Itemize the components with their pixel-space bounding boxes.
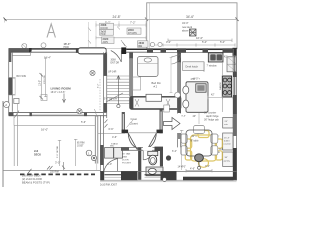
step wall below living room: [95, 112, 106, 164]
svg-text:buffet: buffet: [224, 140, 230, 143]
tick marks above deck line: [47, 166, 53, 170]
existing beam dashed: [20, 173, 95, 175]
callout box middle: [100, 29, 114, 36]
dimension line second row: [96, 23, 146, 26]
svg-text:DOOR: DOOR: [122, 160, 129, 162]
porch bar jamb: [76, 48, 78, 53]
svg-text:4'-2": 4'-2": [166, 40, 171, 44]
svg-text:4'-6": 4'-6": [112, 135, 117, 139]
callout box door 3068: [100, 23, 114, 30]
bathroom west wall: [138, 147, 141, 180]
svg-text:Desk hutch: Desk hutch: [186, 65, 199, 68]
wall block: [203, 48, 209, 52]
wall inner step: [12, 54, 30, 56]
coat closet walls: [122, 110, 163, 134]
pantry box: [223, 152, 233, 167]
island dim line right: [208, 96, 233, 99]
svg-text:BAY WIN: BAY WIN: [17, 75, 27, 78]
svg-text:40": 40": [193, 115, 197, 118]
living room vertical dim: [40, 58, 48, 100]
wall block: [177, 48, 186, 52]
dimension row above wall: [150, 43, 235, 46]
kitchen sink window sill: [208, 48, 223, 50]
front door swing: [111, 51, 122, 63]
bathroom door swing: [143, 150, 152, 159]
bed: [138, 57, 159, 77]
svg-text:DECK: DECK: [34, 154, 41, 157]
kitchen door swing: [171, 55, 180, 65]
wall break slash: [15, 111, 20, 118]
porch bar wall: [78, 48, 106, 54]
living room window sill: [31, 48, 78, 50]
wall block: [161, 48, 167, 52]
linen box: [164, 105, 170, 112]
bathroom east wall: [160, 150, 163, 166]
closet leader line: [127, 120, 134, 128]
circled marker 2: [91, 155, 96, 160]
svg-text:7' window: 7' window: [207, 66, 217, 68]
deck edge line: [3, 169, 100, 171]
column post: [166, 155, 171, 160]
toilet: [148, 151, 158, 165]
hall west wall: [103, 52, 107, 112]
wall block: [147, 48, 153, 52]
svg-text:36": 36": [225, 94, 229, 97]
svg-text:3068: 3068: [111, 60, 117, 62]
wall return connector: [13, 116, 15, 126]
opening arrow to dining: [164, 118, 181, 130]
bottom exterior wall: [100, 171, 237, 182]
svg-text:205 RIM: 205 RIM: [50, 171, 59, 173]
svg-text:15'-3": 15'-3": [224, 138, 230, 140]
svg-text:36": 36": [225, 157, 228, 159]
svg-text:7'-2": 7'-2": [130, 21, 136, 25]
svg-text:24": 24": [225, 121, 228, 123]
svg-text:6'-6": 6'-6": [109, 127, 114, 131]
base cabinet box: [223, 118, 233, 129]
interior wall kitchen-bed: [177, 52, 181, 147]
bedroom closet band: [130, 94, 181, 109]
svg-text:JOIST: JOIST: [77, 146, 84, 148]
chair stem mark: [198, 162, 200, 167]
svg-text:BEAM & POSTS (TYP): BEAM & POSTS (TYP): [22, 180, 50, 184]
deck edge verticals: [14, 113, 17, 166]
stair dashed line: [99, 79, 101, 111]
island: [186, 82, 208, 113]
right exterior wall: [233, 49, 237, 181]
kitchen sink under window: [208, 53, 223, 62]
wall block dark entry: [121, 47, 126, 54]
closet tag circle right: [175, 92, 181, 98]
fridge top right: [227, 57, 236, 72]
svg-text:W/D: W/D: [110, 145, 115, 147]
yellow notes: [172, 148, 223, 169]
frame tag circle: [4, 102, 10, 108]
svg-text:5'-0": 5'-0": [202, 40, 207, 44]
bedroom door leaf: [133, 77, 141, 90]
svg-text:HDR: HDR: [101, 34, 106, 36]
island stools: [183, 86, 189, 108]
setback dim line: [58, 140, 61, 166]
corner notch: [14, 99, 19, 104]
bedroom dim line: [170, 57, 173, 93]
svg-text:14'-0": 14'-0": [178, 166, 184, 169]
desk hutch: [183, 62, 204, 71]
svg-text:34'-0": 34'-0": [182, 21, 189, 25]
bathroom north wall: [121, 147, 163, 151]
svg-text:42": 42": [211, 94, 215, 97]
callout box right stack: [127, 28, 148, 48]
dark chair: [195, 154, 204, 162]
svg-text:5'-0" clg over: 5'-0" clg over: [104, 98, 117, 101]
leader slash: [28, 169, 32, 174]
svg-text:5'-6": 5'-6": [81, 121, 86, 124]
window tag circles: [22, 42, 162, 48]
yellow dining set: [185, 131, 222, 168]
dimension line third row: [96, 36, 146, 39]
laundry note block: [122, 153, 132, 165]
hall door to deck: [104, 159, 118, 172]
svg-text:6'-0": 6'-0": [172, 150, 177, 153]
deck rectangle top-right: [147, 3, 237, 49]
lower line below living room: [14, 124, 95, 126]
svg-text:2x10 RIM JOIST: 2x10 RIM JOIST: [100, 185, 118, 187]
front door gap: [107, 48, 122, 53]
dim end box: [41, 95, 47, 101]
svg-text:counter: counter: [224, 143, 232, 146]
svg-text:Bed Rm: Bed Rm: [152, 81, 161, 85]
left exterior wall: [8, 49, 15, 116]
stair break line: [106, 93, 123, 102]
svg-text:1/2 HIGH: 1/2 HIGH: [44, 74, 46, 84]
wall NW segment outline: [9, 48, 32, 50]
wall block: [223, 48, 233, 52]
range right wall: [222, 76, 231, 97]
svg-text:34'-6": 34'-6": [186, 15, 194, 19]
svg-text:AWN: AWN: [103, 41, 109, 44]
west wall lower portion: [100, 115, 104, 172]
circled marker 1: [86, 150, 92, 156]
living room bottom wall: [9, 109, 107, 117]
wall jamb: [29, 48, 32, 52]
window sill: [166, 48, 177, 50]
section marker A: [47, 24, 55, 38]
coat closet double doors: [128, 133, 156, 150]
svg-text:78" table: 78" table: [190, 140, 200, 143]
dimension line top: [4, 18, 239, 23]
NE corner block: [233, 48, 238, 56]
svg-text:16'-4": 16'-4": [44, 55, 51, 59]
bedroom west wall: [129, 52, 133, 96]
counter edge lines: [204, 62, 223, 112]
svg-text:above: above: [182, 30, 189, 33]
svg-text:5'-0": 5'-0": [108, 164, 113, 166]
line at hall: [98, 132, 122, 134]
stair arrow base circle: [117, 104, 120, 107]
svg-text:85 RIM: 85 RIM: [77, 143, 84, 145]
window sill: [153, 48, 161, 50]
extension lines: [89, 21, 147, 47]
vertical dim deck: [74, 139, 77, 166]
svg-text:ENT DR: ENT DR: [111, 63, 120, 65]
svg-text:3'-0" SETBK: 3'-0" SETBK: [57, 145, 59, 158]
callout box window: [102, 37, 115, 44]
svg-text:cntr: cntr: [224, 123, 228, 126]
svg-text:42": 42": [224, 57, 228, 59]
dining dim line: [180, 130, 212, 172]
svg-text:Closet: Closet: [130, 122, 138, 126]
svg-text:3'-0": 3'-0": [205, 165, 210, 168]
top exterior wall: [9, 47, 238, 62]
svg-text:pantry: pantry: [224, 160, 231, 163]
svg-text:STACK: STACK: [111, 143, 119, 146]
closet tag circle: [146, 97, 152, 103]
svg-text:2x10: 2x10: [101, 30, 107, 33]
svg-text:RANGE: RANGE: [219, 82, 222, 90]
dining table gray: [186, 130, 212, 156]
svg-text:LIVING ROOM: LIVING ROOM: [51, 87, 72, 91]
vanity: [146, 167, 163, 176]
buffet box: [223, 133, 233, 150]
svg-text:POCKET: POCKET: [122, 163, 132, 165]
svg-text:8'-6": 8'-6": [182, 116, 187, 118]
svg-text:9'-2": 9'-2": [98, 83, 100, 88]
svg-text:24'-8": 24'-8": [113, 15, 121, 19]
ceiling fan symbol on wall: [77, 109, 82, 114]
leader arrows: [88, 27, 127, 48]
marker leader: [96, 160, 98, 170]
svg-text:4'-6": 4'-6": [191, 78, 196, 81]
bedroom window sill: [126, 48, 147, 50]
svg-text:42" x: 42" x: [192, 136, 198, 138]
svg-text:# 2: # 2: [154, 85, 158, 89]
hall dim ticks: [105, 120, 108, 128]
bay window in left wall: [8, 78, 12, 96]
drawing frame left: [2, 101, 4, 187]
svg-text:UP 14R: UP 14R: [108, 71, 117, 74]
chimney box: [190, 29, 197, 36]
svg-text:5'-0": 5'-0": [220, 40, 225, 44]
svg-text:Coat: Coat: [131, 117, 137, 121]
svg-text:16'-0": 16'-0": [196, 36, 203, 40]
svg-text:DH: DH: [139, 45, 143, 48]
svg-text:DH WIN: DH WIN: [128, 32, 137, 35]
svg-text:36" VAN: 36" VAN: [122, 153, 131, 156]
wall tag circle: [90, 70, 95, 75]
kitchen window sill: [186, 48, 203, 50]
svg-text:13'-0": 13'-0": [38, 80, 41, 86]
svg-text:36" fridge cab: 36" fridge cab: [204, 118, 219, 121]
svg-text:4'-6": 4'-6": [190, 168, 195, 171]
wall NW corner thick: [10, 50, 31, 62]
deck dimension line: [168, 39, 232, 43]
svg-text:16'-0" x 13'-6": 16'-0" x 13'-6": [51, 91, 66, 94]
svg-text:16'-0": 16'-0": [41, 127, 48, 131]
stair center rail: [117, 76, 120, 105]
leader arrow down: [63, 94, 66, 103]
dining chairs gray: [181, 126, 218, 156]
bay window seat: [13, 78, 16, 94]
svg-text:2868: 2868: [122, 157, 128, 159]
laundry boxes: [105, 148, 123, 159]
stairs: [107, 76, 129, 103]
